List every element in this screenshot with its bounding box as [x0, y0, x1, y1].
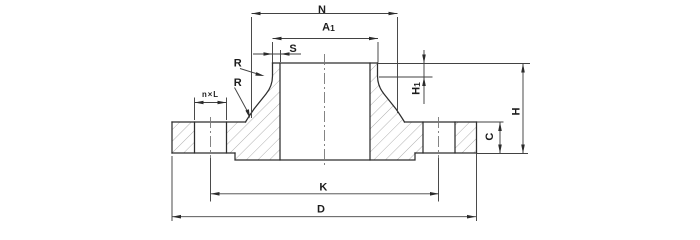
svg-text:H1: H1: [411, 82, 423, 95]
svg-text:C: C: [484, 133, 496, 141]
svg-text:H: H: [511, 107, 523, 115]
svg-text:D: D: [317, 203, 325, 215]
svg-text:R: R: [234, 58, 242, 70]
svg-text:R: R: [234, 77, 242, 89]
svg-text:A1: A1: [322, 21, 335, 33]
svg-text:n×L: n×L: [202, 90, 219, 99]
svg-text:K: K: [319, 181, 327, 193]
svg-text:S: S: [289, 43, 296, 55]
svg-text:N: N: [318, 4, 326, 16]
